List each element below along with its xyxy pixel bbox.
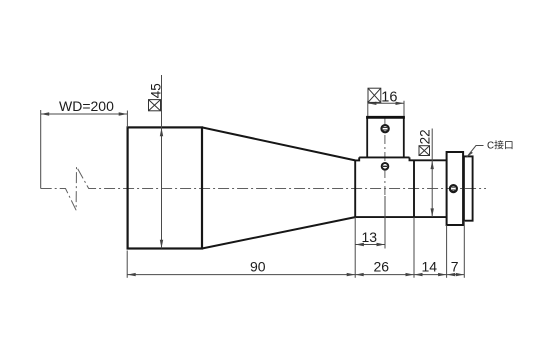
svg-text:90: 90: [250, 259, 266, 275]
svg-text:7: 7: [451, 259, 459, 275]
dimension phi16: [368, 101, 404, 116]
svg-text:WD=200: WD=200: [59, 98, 114, 114]
front cylinder (phi45 barrel): [128, 127, 202, 248]
svg-text:C接口: C接口: [487, 139, 514, 152]
C-mount leader and label: [467, 146, 484, 158]
dimension 13: [355, 196, 385, 249]
svg-text:14: 14: [422, 259, 438, 275]
C-thread collar: [464, 156, 473, 220]
centerline horizontal with break symbol: [41, 167, 486, 211]
svg-text:13: 13: [362, 229, 378, 245]
cone section: [202, 127, 355, 248]
dimension phi22: [431, 129, 433, 217]
svg-text:16: 16: [381, 89, 397, 105]
chained dimensions 90 26 14 7: [127, 217, 464, 278]
main barrel (26) and 14 section outline: [355, 157, 446, 217]
port vertical centerline: [384, 118, 386, 196]
tower collar: [359, 156, 409, 158]
barrel/14 separator: [413, 160, 415, 217]
screw S2 on collar: [382, 163, 389, 170]
svg-text:45: 45: [148, 83, 163, 98]
screw S3 on flange: [450, 185, 457, 192]
dimension WD=200: [41, 110, 128, 189]
svg-text:26: 26: [374, 259, 390, 275]
C-mount flange (7): [447, 152, 464, 225]
top port tower (phi16): [367, 117, 404, 157]
svg-text:22: 22: [417, 129, 432, 144]
dimension phi45: [161, 75, 163, 248]
screw S1 on tower: [382, 125, 389, 132]
